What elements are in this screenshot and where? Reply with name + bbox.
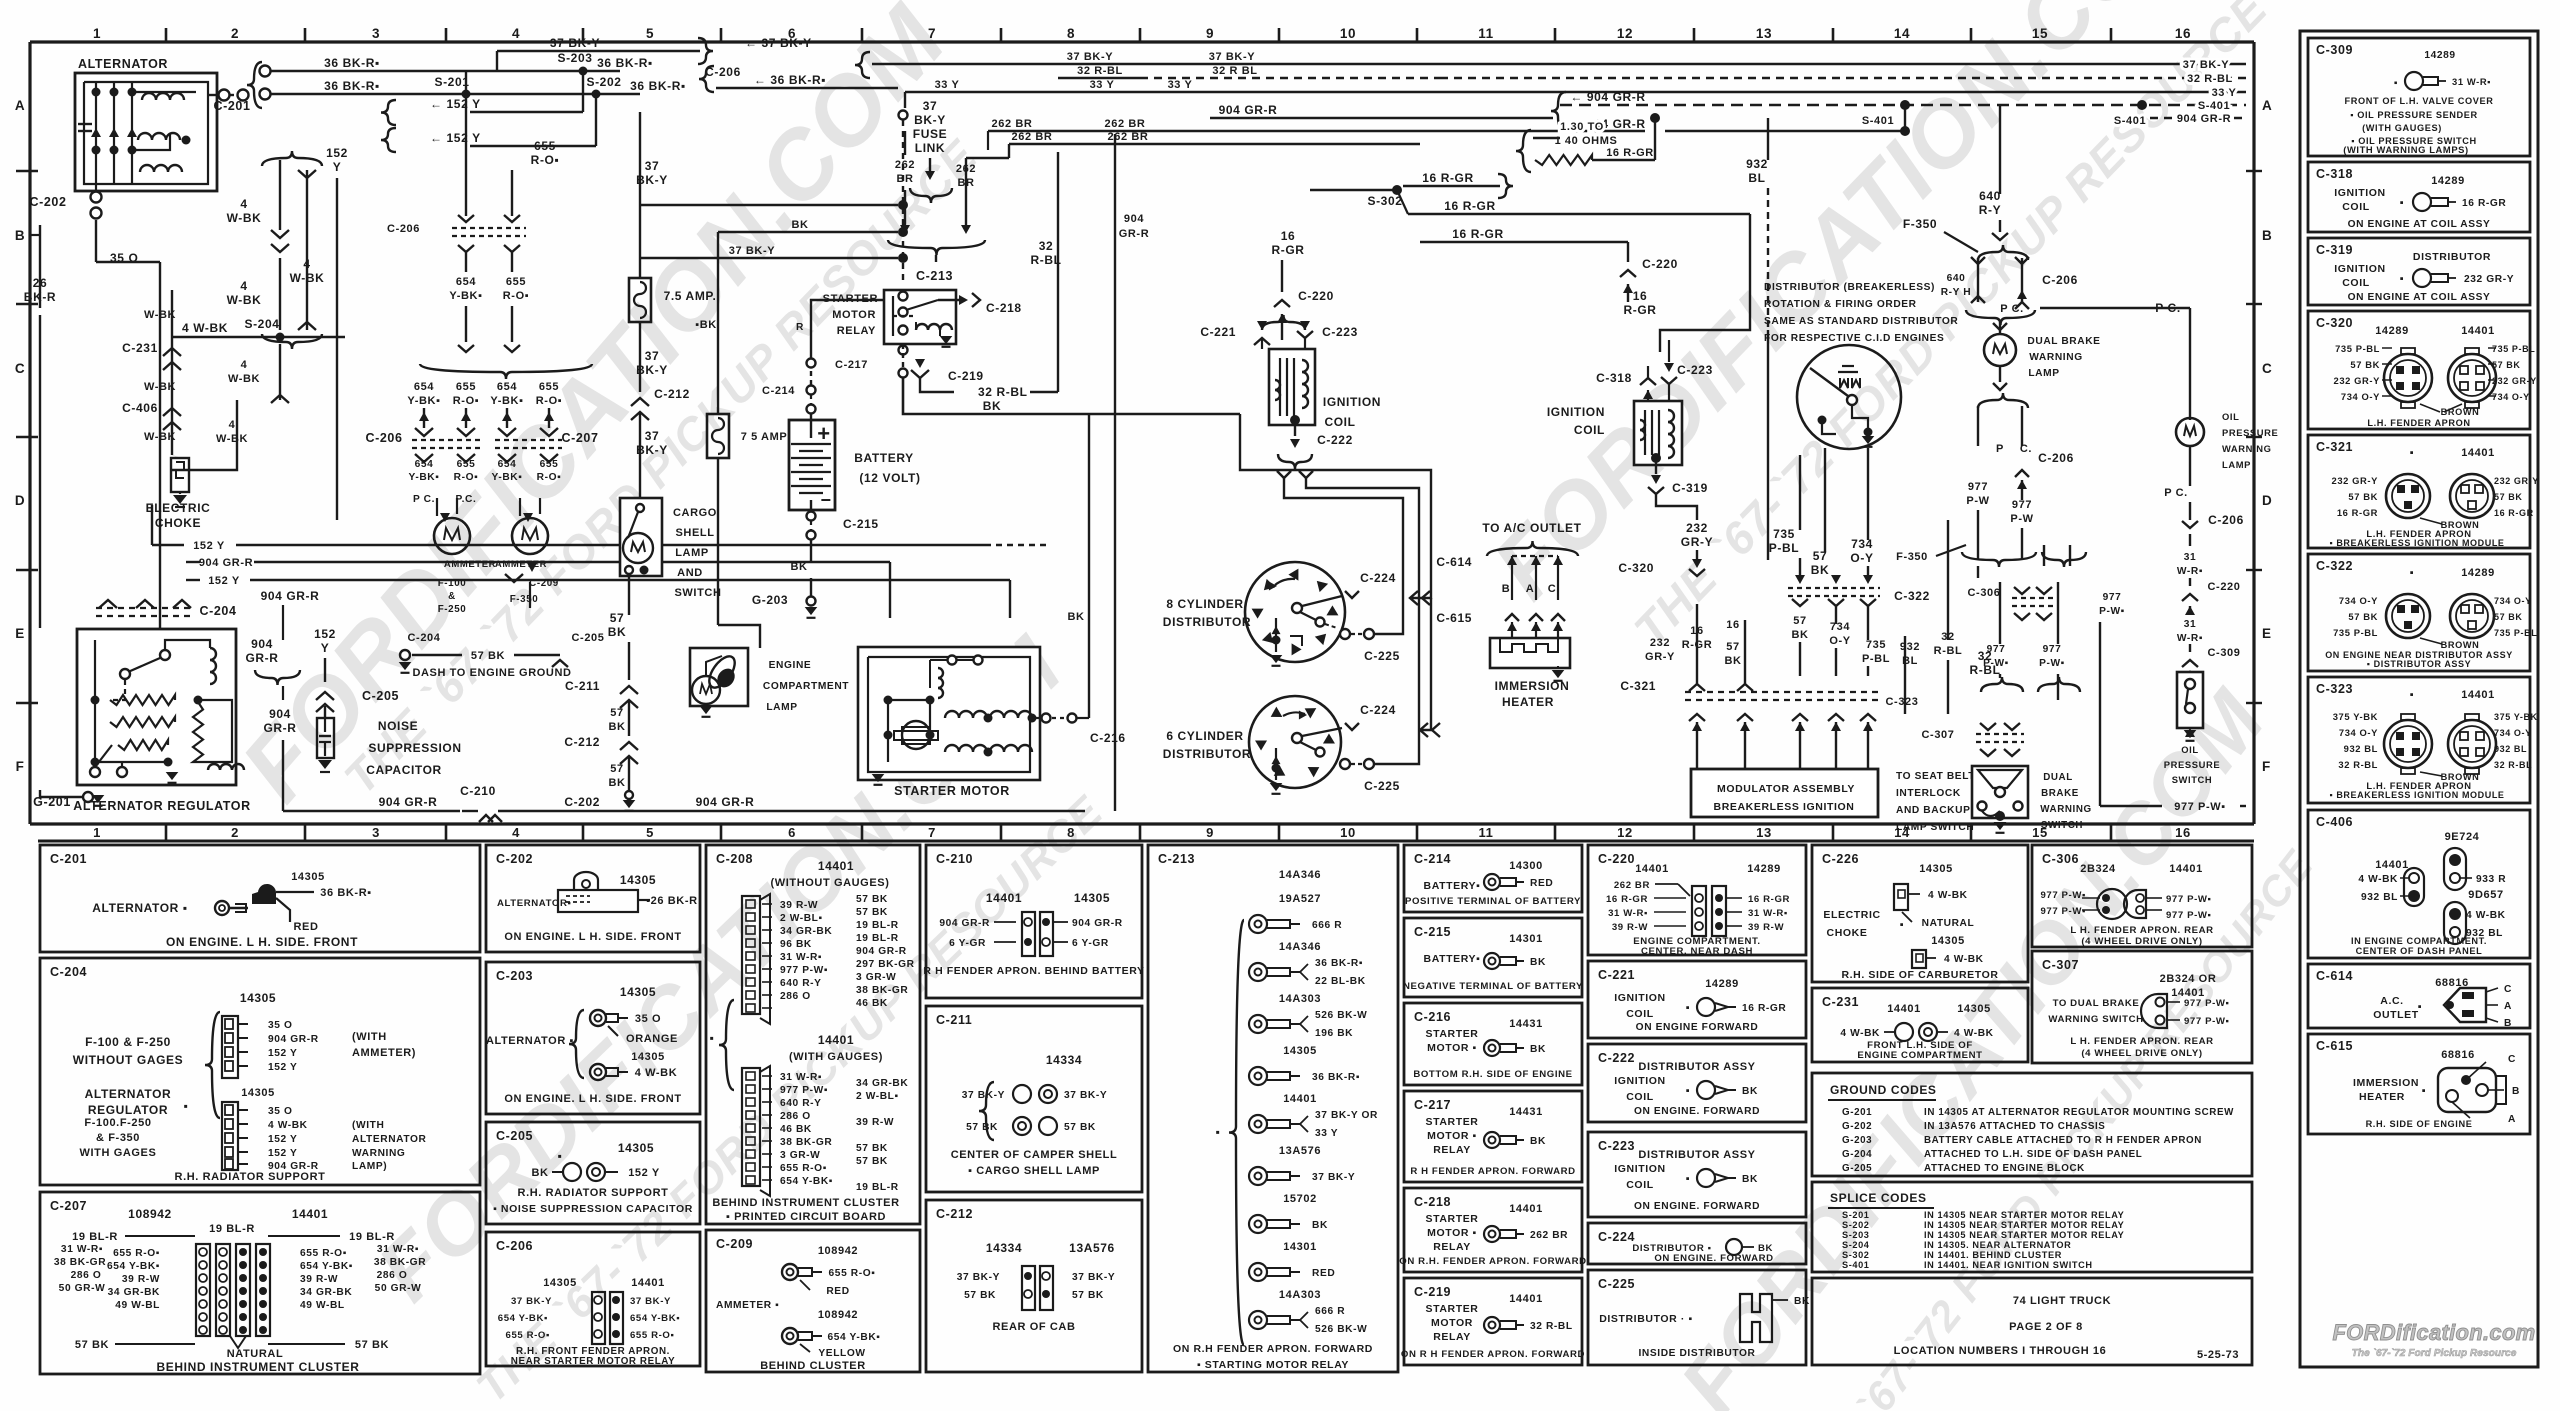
wire 32 R-BL bus: [1058, 77, 1140, 80]
svg-text:STARTER: STARTER: [1425, 1303, 1478, 1315]
svg-text:NOISE: NOISE: [378, 719, 418, 733]
svg-text:C-226: C-226: [1822, 852, 1859, 866]
svg-text:2 W-BL▪: 2 W-BL▪: [856, 1091, 899, 1102]
svg-text:152 Y: 152 Y: [208, 575, 240, 587]
svg-text:R-O▪: R-O▪: [537, 472, 562, 483]
svg-text:16 R-GR: 16 R-GR: [2462, 198, 2506, 209]
svg-text:ORANGE: ORANGE: [626, 1033, 678, 1045]
svg-text:14401: 14401: [818, 859, 854, 873]
svg-text:14334: 14334: [1046, 1053, 1082, 1067]
svg-text:DISTRIBUTOR ASSY: DISTRIBUTOR ASSY: [1638, 1149, 1755, 1161]
dual brake warning lamp: [1999, 322, 2001, 334]
svg-text:IGNITION: IGNITION: [1614, 1075, 1665, 1087]
svg-text:37 BK-Y: 37 BK-Y: [550, 36, 600, 50]
svg-text:BK: BK: [1067, 611, 1084, 623]
svg-text:▪ BREAKERLESS IGNITION MODULE: ▪ BREAKERLESS IGNITION MODULE: [2329, 538, 2504, 548]
svg-text:STARTER MOTOR: STARTER MOTOR: [894, 784, 1010, 798]
svg-text:HEATER: HEATER: [2359, 1091, 2405, 1103]
fuse 7.5 amp upper: [639, 112, 641, 278]
cargo shell lamp and switch: [639, 452, 641, 498]
svg-text:GR-R: GR-R: [245, 651, 278, 665]
svg-text:C-322: C-322: [1894, 589, 1930, 603]
svg-text:31 W-R▪: 31 W-R▪: [780, 952, 822, 963]
relay bottom chain C-217/C-219: [899, 346, 908, 355]
svg-text:P-W▪: P-W▪: [1983, 658, 2009, 669]
resistor 1.3-1.4 ohms: [1535, 155, 1592, 165]
svg-text:932: 932: [1900, 641, 1920, 653]
wires P C / 977 down: [1977, 406, 1979, 446]
svg-text:NATURAL: NATURAL: [1922, 918, 1975, 929]
svg-text:A.C.: A.C.: [2380, 995, 2403, 1007]
svg-text:96 BK: 96 BK: [780, 939, 812, 950]
svg-text:R-O▪: R-O▪: [454, 472, 479, 483]
svg-text:COIL: COIL: [1324, 415, 1355, 429]
svg-text:DISTRIBUTOR (BREAKERLESS): DISTRIBUTOR (BREAKERLESS): [1764, 282, 1935, 293]
svg-text:49 W-BL: 49 W-BL: [300, 1300, 345, 1311]
wire 232 GR-Y: [1656, 494, 1697, 520]
connector C-223 right: [1664, 363, 1674, 372]
svg-text:ALTERNATOR▪: ALTERNATOR▪: [497, 898, 572, 909]
svg-text:ON R H FENDER APRON. FORWAR: ON R H FENDER APRON. FORWARD: [1401, 1349, 1585, 1360]
svg-text:W-BK: W-BK: [227, 211, 262, 225]
svg-text:O-Y: O-Y: [1850, 551, 1873, 565]
svg-text:BK: BK: [983, 399, 1002, 413]
wire 262 BR bus 1: [988, 130, 1645, 133]
svg-text:(WITH GAUGES): (WITH GAUGES): [789, 1051, 883, 1063]
svg-text:C-321: C-321: [2316, 440, 2353, 454]
svg-text:C-322: C-322: [2316, 559, 2353, 573]
svg-text:16 R-GR: 16 R-GR: [1452, 227, 1504, 241]
svg-text:S-204: S-204: [244, 317, 279, 331]
svg-text:IN 14305 NEAR STARTER MOTOR RE: IN 14305 NEAR STARTER MOTOR RELAY: [1924, 1210, 2124, 1220]
svg-text:108942: 108942: [818, 1309, 858, 1321]
svg-text:734 O-Y: 734 O-Y: [2492, 392, 2530, 402]
alternator diode legs: [95, 82, 97, 184]
svg-text:NEGATIVE TERMINAL OF BATTERY: NEGATIVE TERMINAL OF BATTERY: [1403, 981, 1583, 992]
svg-text:3 GR-W: 3 GR-W: [856, 972, 896, 983]
wire 37 BK-Y top left segment: [497, 50, 700, 53]
svg-text:286 O: 286 O: [71, 1270, 102, 1281]
svg-text:977: 977: [2043, 644, 2062, 655]
svg-text:ON ENGINE. L H. SIDE. FRONT: ON ENGINE. L H. SIDE. FRONT: [166, 935, 358, 949]
svg-text:SPLICE CODES: SPLICE CODES: [1830, 1191, 1927, 1205]
svg-text:977 P-W▪: 977 P-W▪: [780, 965, 828, 976]
svg-text:16: 16: [1726, 619, 1739, 631]
svg-text:4 W-BK: 4 W-BK: [635, 1067, 678, 1079]
svg-text:WARNING: WARNING: [2029, 352, 2082, 363]
wire 904 GR-R mid: [186, 561, 200, 563]
svg-text:IN 14305. NEAR ALTERNATOR: IN 14305. NEAR ALTERNATOR: [1924, 1240, 2071, 1250]
svg-text:C-212: C-212: [564, 735, 600, 749]
svg-text:152 Y: 152 Y: [193, 540, 225, 552]
svg-text:← 152 Y: ← 152 Y: [430, 131, 481, 145]
svg-text:F-350: F-350: [510, 594, 539, 605]
svg-text:108942: 108942: [818, 1245, 858, 1257]
svg-text:GR-R: GR-R: [1119, 228, 1150, 240]
svg-text:CENTER OF DASH PANEL: CENTER OF DASH PANEL: [2356, 946, 2483, 956]
svg-text:C-309: C-309: [2316, 43, 2353, 57]
svg-text:P C.: P C.: [413, 494, 435, 505]
svg-text:11: 11: [1479, 825, 1494, 840]
svg-text:C-406: C-406: [2316, 815, 2353, 829]
svg-text:W-BK: W-BK: [216, 433, 248, 445]
wire W-BK c-231 chain: [171, 290, 173, 455]
svg-text:14A346: 14A346: [1279, 941, 1321, 953]
svg-text:4 W-BK: 4 W-BK: [182, 321, 228, 335]
wire 904 GR-R rises to starter area: [1114, 134, 1116, 811]
svg-text:R-GR: R-GR: [1623, 303, 1656, 317]
wire 32 R-BL vertical: [1057, 152, 1059, 392]
svg-text:655 R-O▪: 655 R-O▪: [300, 1248, 347, 1259]
relay dashed trunk C-213: [902, 120, 904, 282]
svg-text:IGNITION: IGNITION: [1614, 1163, 1665, 1175]
svg-text:152 Y: 152 Y: [268, 1148, 297, 1159]
svg-text:16: 16: [1633, 289, 1648, 303]
svg-text:FOR RESPECTIVE C.I.D ENGINES: FOR RESPECTIVE C.I.D ENGINES: [1764, 333, 1944, 344]
svg-text:14305: 14305: [618, 1141, 654, 1155]
svg-text:654 Y-BK▪: 654 Y-BK▪: [498, 1313, 548, 1324]
modulator assembly box: [1691, 769, 1878, 817]
svg-text:INSIDE DISTRIBUTOR: INSIDE DISTRIBUTOR: [1638, 1348, 1755, 1359]
svg-text:32 R-BL: 32 R-BL: [2338, 759, 2378, 770]
svg-text:C-202: C-202: [29, 195, 66, 209]
svg-text:BREAKERLESS IGNITION: BREAKERLESS IGNITION: [1714, 801, 1855, 813]
svg-text:C-204: C-204: [50, 965, 87, 979]
connector C-215: [807, 512, 816, 521]
svg-text:8 CYLINDER: 8 CYLINDER: [1166, 597, 1243, 611]
svg-text:G-203: G-203: [1842, 1135, 1872, 1146]
svg-text:R H FENDER APRON. BEHIND BATT: R H FENDER APRON. BEHIND BATTERY: [923, 965, 1144, 977]
svg-text:STARTER: STARTER: [823, 293, 878, 305]
svg-text:TO DUAL BRAKE: TO DUAL BRAKE: [2053, 998, 2140, 1009]
svg-text:R.H. RADIATOR SUPPORT: R.H. RADIATOR SUPPORT: [175, 1171, 326, 1183]
svg-text:P-W▪: P-W▪: [2039, 658, 2065, 669]
svg-text:BK-Y: BK-Y: [914, 113, 946, 127]
svg-text:IN 13A576 ATTACHED TO CHASSIS: IN 13A576 ATTACHED TO CHASSIS: [1924, 1121, 2105, 1132]
ignition coil (left): [1269, 349, 1315, 425]
svg-text:152 Y: 152 Y: [268, 1048, 297, 1059]
svg-text:ALTERNATOR ▪: ALTERNATOR ▪: [92, 901, 187, 915]
svg-text:IN 14305 NEAR STARTER MOTOR RE: IN 14305 NEAR STARTER MOTOR RELAY: [1924, 1230, 2124, 1240]
svg-text:▪ DISTRIBUTOR ASSY: ▪ DISTRIBUTOR ASSY: [2367, 659, 2472, 669]
svg-text:C-205: C-205: [362, 689, 399, 703]
svg-text:G-202: G-202: [1842, 1121, 1872, 1132]
svg-text:ROTATION & FIRING ORDER: ROTATION & FIRING ORDER: [1764, 299, 1917, 310]
svg-text:C: C: [15, 361, 25, 376]
svg-text:ON ENGINE. FORWARD: ON ENGINE. FORWARD: [1634, 1201, 1760, 1212]
svg-text:C-211: C-211: [936, 1013, 972, 1027]
svg-text:13: 13: [1756, 26, 1772, 41]
svg-text:A: A: [15, 98, 25, 113]
connector C-225 (6cyl): [1340, 759, 1350, 769]
svg-text:6 Y-GR: 6 Y-GR: [1072, 938, 1109, 949]
svg-text:C-215: C-215: [843, 517, 879, 531]
svg-text:655: 655: [506, 276, 526, 288]
svg-text:ELECTRIC: ELECTRIC: [1823, 909, 1880, 921]
svg-text:977: 977: [2012, 499, 2032, 511]
svg-text:C-222: C-222: [1598, 1051, 1635, 1065]
svg-text:15702: 15702: [1283, 1193, 1317, 1205]
alternator stator winding: [142, 93, 184, 100]
svg-text:655: 655: [539, 381, 559, 393]
svg-text:AMMETER): AMMETER): [352, 1047, 416, 1059]
svg-text:904 GR-R: 904 GR-R: [1219, 103, 1278, 117]
wire 57 BK below cargo lamp: [628, 576, 630, 615]
svg-text:COIL: COIL: [2342, 201, 2369, 213]
svg-text:4: 4: [240, 279, 247, 293]
svg-text:AMMETER ▪: AMMETER ▪: [716, 1300, 779, 1311]
ground G-203: [807, 597, 816, 606]
svg-text:RELAY: RELAY: [1433, 1331, 1471, 1343]
svg-text:C-209: C-209: [716, 1237, 753, 1251]
svg-text:WARNING: WARNING: [2222, 443, 2272, 454]
svg-text:297 BK-GR: 297 BK-GR: [856, 959, 915, 970]
svg-text:37 BK-Y: 37 BK-Y: [962, 1090, 1005, 1101]
svg-text:14289: 14289: [1705, 978, 1739, 990]
svg-text:31: 31: [2184, 552, 2197, 563]
svg-text:19 BL-R: 19 BL-R: [209, 1223, 255, 1235]
svg-text:S-203: S-203: [1842, 1230, 1870, 1240]
svg-text:16 R-GR: 16 R-GR: [1748, 894, 1790, 905]
svg-text:FUSE: FUSE: [913, 127, 947, 141]
svg-text:C-220: C-220: [2208, 581, 2241, 593]
svg-text:FRONT OF L.H. VALVE COVER: FRONT OF L.H. VALVE COVER: [2345, 96, 2494, 106]
svg-text:31 W-R▪: 31 W-R▪: [2452, 76, 2491, 87]
svg-text:INTERLOCK: INTERLOCK: [1896, 788, 1961, 799]
svg-text:3 GR-W: 3 GR-W: [780, 1150, 820, 1161]
svg-text:655 R-O▪: 655 R-O▪: [780, 1163, 827, 1174]
svg-text:COIL: COIL: [1574, 423, 1605, 437]
svg-text:286 O: 286 O: [780, 1111, 811, 1122]
svg-text:IGNITION: IGNITION: [2334, 263, 2385, 275]
svg-text:P-W▪: P-W▪: [2099, 606, 2125, 617]
svg-text:932 BL: 932 BL: [2344, 743, 2378, 754]
svg-text:LAMP: LAMP: [675, 547, 709, 559]
svg-text:57: 57: [1793, 615, 1806, 627]
svg-text:Y-BK▪: Y-BK▪: [449, 290, 482, 302]
svg-text:C-210: C-210: [936, 852, 973, 866]
svg-text:1: 1: [93, 825, 101, 840]
svg-text:31 W-R▪: 31 W-R▪: [780, 1072, 822, 1083]
svg-text:C-201: C-201: [50, 852, 87, 866]
svg-text:LINK: LINK: [915, 141, 945, 155]
svg-text:C-307: C-307: [2042, 958, 2079, 972]
svg-text:RELAY: RELAY: [837, 325, 876, 337]
svg-text:C-223: C-223: [1598, 1139, 1635, 1153]
svg-text:P.C.: P.C.: [456, 494, 477, 505]
svg-text:13A576: 13A576: [1069, 1241, 1115, 1255]
svg-text:C-214: C-214: [762, 385, 795, 397]
svg-text:734 O-Y: 734 O-Y: [2341, 391, 2380, 402]
svg-text:7: 7: [928, 825, 936, 840]
svg-text:ON ENGINE. FORWARD: ON ENGINE. FORWARD: [1654, 1253, 1773, 1264]
svg-text:F: F: [16, 759, 25, 774]
svg-text:COMPARTMENT: COMPARTMENT: [763, 681, 849, 692]
svg-text:P: P: [1996, 443, 2004, 455]
svg-text:TO A/C OUTLET: TO A/C OUTLET: [1482, 521, 1581, 535]
svg-text:526 BK-W: 526 BK-W: [1315, 1010, 1367, 1021]
svg-text:C-224: C-224: [1360, 571, 1396, 585]
svg-text:32 R-BL: 32 R-BL: [1530, 1321, 1573, 1332]
svg-text:(WITH: (WITH: [352, 1031, 387, 1043]
svg-text:C-224: C-224: [1598, 1230, 1635, 1244]
svg-text:C-212: C-212: [654, 387, 690, 401]
alternator box: [75, 73, 217, 191]
svg-text:▪ STARTING MOTOR RELAY: ▪ STARTING MOTOR RELAY: [1197, 1359, 1349, 1371]
svg-text:BR: BR: [896, 173, 913, 185]
svg-text:36 BK-R▪: 36 BK-R▪: [597, 56, 653, 70]
wire S-401 line: [1560, 104, 2246, 106]
svg-text:ENGINE: ENGINE: [769, 660, 812, 671]
svg-text:37: 37: [923, 99, 938, 113]
svg-text:CENTER. NEAR DASH: CENTER. NEAR DASH: [1641, 946, 1753, 957]
svg-text:654 Y-BK▪: 654 Y-BK▪: [780, 1176, 833, 1187]
svg-text:C-319: C-319: [1672, 481, 1708, 495]
svg-text:MOTOR: MOTOR: [1431, 1317, 1473, 1329]
svg-text:655: 655: [456, 381, 476, 393]
svg-text:14301: 14301: [1283, 1241, 1317, 1253]
svg-text:C-323: C-323: [2316, 682, 2353, 696]
splice S-202: [592, 90, 601, 99]
svg-text:14305: 14305: [1957, 1003, 1991, 1015]
svg-text:MOTOR ▪: MOTOR ▪: [1427, 1130, 1477, 1142]
svg-text:RELAY: RELAY: [1433, 1241, 1471, 1253]
svg-text:39 R-W: 39 R-W: [122, 1274, 160, 1285]
svg-text:C-223: C-223: [1322, 325, 1358, 339]
svg-text:LAMP SWITCH: LAMP SWITCH: [1896, 822, 1974, 833]
svg-text:16: 16: [1281, 229, 1296, 243]
svg-text:R.H. SIDE OF ENGINE: R.H. SIDE OF ENGINE: [2366, 1119, 2473, 1129]
svg-text:22 BL-BK: 22 BL-BK: [1315, 976, 1366, 987]
svg-text:C-320: C-320: [2316, 316, 2353, 330]
svg-text:F-100.F-250: F-100.F-250: [84, 1117, 151, 1129]
svg-text:14401: 14401: [2169, 863, 2203, 875]
svg-text:S-401: S-401: [2198, 100, 2230, 112]
svg-text:49 W-BL: 49 W-BL: [115, 1300, 160, 1311]
regulator contacts: [160, 650, 170, 660]
svg-text:IN 14401. BEHIND CLUSTER: IN 14401. BEHIND CLUSTER: [1924, 1250, 2062, 1260]
svg-text:655: 655: [540, 459, 559, 470]
svg-text:57 BK: 57 BK: [2494, 492, 2523, 502]
svg-text:G-204: G-204: [1842, 1149, 1872, 1160]
svg-text:F-100: F-100: [438, 578, 467, 589]
svg-text:152 Y: 152 Y: [268, 1062, 297, 1073]
svg-text:BK: BK: [531, 1167, 548, 1179]
svg-text:ELECTRIC: ELECTRIC: [146, 501, 211, 515]
svg-text:C-215: C-215: [1414, 925, 1451, 939]
wire BK vertical to distributors: [1240, 414, 1431, 598]
svg-text:A: A: [2262, 98, 2272, 113]
svg-text:14305: 14305: [241, 1087, 275, 1099]
svg-text:AMMETER: AMMETER: [444, 559, 496, 570]
svg-text:232: 232: [1686, 521, 1708, 535]
svg-text:262 BR: 262 BR: [1012, 131, 1053, 143]
svg-text:57 BK: 57 BK: [2350, 359, 2380, 370]
svg-text:C-201: C-201: [213, 99, 250, 113]
svg-text:▪ CARGO SHELL LAMP: ▪ CARGO SHELL LAMP: [968, 1165, 1100, 1177]
svg-text:C-204: C-204: [199, 604, 236, 618]
svg-text:S-203: S-203: [557, 51, 592, 65]
svg-text:654 Y-BK▪: 654 Y-BK▪: [107, 1261, 160, 1272]
svg-text:AND: AND: [677, 567, 703, 579]
svg-text:19 BL-R: 19 BL-R: [72, 1231, 118, 1243]
svg-text:← 904 GR-R: ← 904 GR-R: [1570, 90, 1645, 104]
svg-text:34 GR-BK: 34 GR-BK: [300, 1287, 352, 1298]
svg-text:B: B: [2512, 1086, 2520, 1097]
svg-text:654: 654: [498, 459, 517, 470]
svg-text:37 BK-Y: 37 BK-Y: [957, 1272, 1000, 1283]
svg-text:4 W-BK: 4 W-BK: [268, 1120, 308, 1131]
svg-text:904 GR-R: 904 GR-R: [1072, 918, 1123, 929]
svg-text:32 R BL: 32 R BL: [1212, 65, 1257, 77]
regulator ground G-201: [83, 792, 93, 802]
svg-text:R-O▪: R-O▪: [453, 395, 479, 407]
svg-text:▪: ▪: [1686, 1085, 1691, 1097]
svg-text:BK: BK: [1312, 1220, 1328, 1231]
svg-text:19A527: 19A527: [1279, 893, 1321, 905]
svg-text:16 R-GR: 16 R-GR: [2337, 507, 2378, 518]
svg-text:C-309: C-309: [2208, 647, 2241, 659]
svg-text:LAMP: LAMP: [766, 702, 797, 713]
wire 37 BK-Y bus right: [698, 38, 713, 64]
svg-text:262 BR: 262 BR: [992, 118, 1033, 130]
svg-text:57 BK: 57 BK: [355, 1339, 389, 1351]
svg-text:12: 12: [1617, 26, 1633, 41]
svg-text:2: 2: [231, 825, 239, 840]
svg-text:A: A: [1526, 583, 1535, 595]
svg-text:S-302: S-302: [1842, 1250, 1870, 1260]
svg-text:14401: 14401: [631, 1277, 665, 1289]
svg-text:← 37 BK-Y: ← 37 BK-Y: [745, 36, 812, 50]
wire 31 W-R: [2189, 534, 2191, 546]
svg-text:19 BL-R: 19 BL-R: [856, 1182, 899, 1193]
svg-text:STARTER: STARTER: [1425, 1213, 1478, 1225]
svg-text:▪ NOISE SUPPRESSION CAPACITOR: ▪ NOISE SUPPRESSION CAPACITOR: [493, 1203, 693, 1215]
regulator resistors: [110, 695, 175, 705]
wire 152 Y mid2: [186, 579, 200, 581]
svg-text:654 Y-BK▪: 654 Y-BK▪: [300, 1261, 353, 1272]
svg-text:152: 152: [326, 146, 348, 160]
svg-text:RED: RED: [826, 1286, 849, 1297]
svg-text:16 R-GR: 16 R-GR: [1606, 147, 1654, 159]
svg-text:DISTRIBUTOR: DISTRIBUTOR: [1163, 615, 1251, 629]
svg-text:A: A: [2504, 1001, 2512, 1012]
svg-text:CENTER OF CAMPER SHELL: CENTER OF CAMPER SHELL: [951, 1149, 1118, 1161]
svg-text:19 BL-R: 19 BL-R: [856, 933, 899, 944]
svg-text:654: 654: [415, 459, 434, 470]
svg-text:735 P-BL: 735 P-BL: [2333, 627, 2378, 638]
svg-text:375 Y-BK: 375 Y-BK: [2494, 712, 2538, 722]
svg-text:BATTERY▪: BATTERY▪: [1424, 953, 1481, 965]
svg-text:31 W-R▪: 31 W-R▪: [61, 1244, 103, 1255]
svg-text:E: E: [15, 626, 25, 641]
svg-text:734 O-Y: 734 O-Y: [2339, 595, 2378, 606]
svg-text:14300: 14300: [1509, 860, 1543, 872]
svg-text:BK: BK: [608, 721, 625, 733]
svg-text:DASH TO ENGINE GROUND: DASH TO ENGINE GROUND: [412, 667, 571, 679]
svg-text:654 Y-BK▪: 654 Y-BK▪: [630, 1313, 680, 1324]
svg-text:904 GR-R: 904 GR-R: [261, 589, 320, 603]
svg-text:977 P-W▪: 977 P-W▪: [2040, 890, 2086, 901]
svg-text:977 P-W▪: 977 P-W▪: [2166, 910, 2212, 921]
svg-text:33 Y: 33 Y: [1315, 1128, 1338, 1139]
svg-text:Y-BK▪: Y-BK▪: [407, 395, 440, 407]
svg-text:W-BK: W-BK: [228, 373, 260, 385]
regulator lower contacts: [90, 767, 100, 777]
svg-text:39 R-W: 39 R-W: [1612, 922, 1648, 933]
svg-text:TO SEAT BELT: TO SEAT BELT: [1896, 771, 1975, 782]
svg-text:S-401: S-401: [1842, 1260, 1870, 1270]
